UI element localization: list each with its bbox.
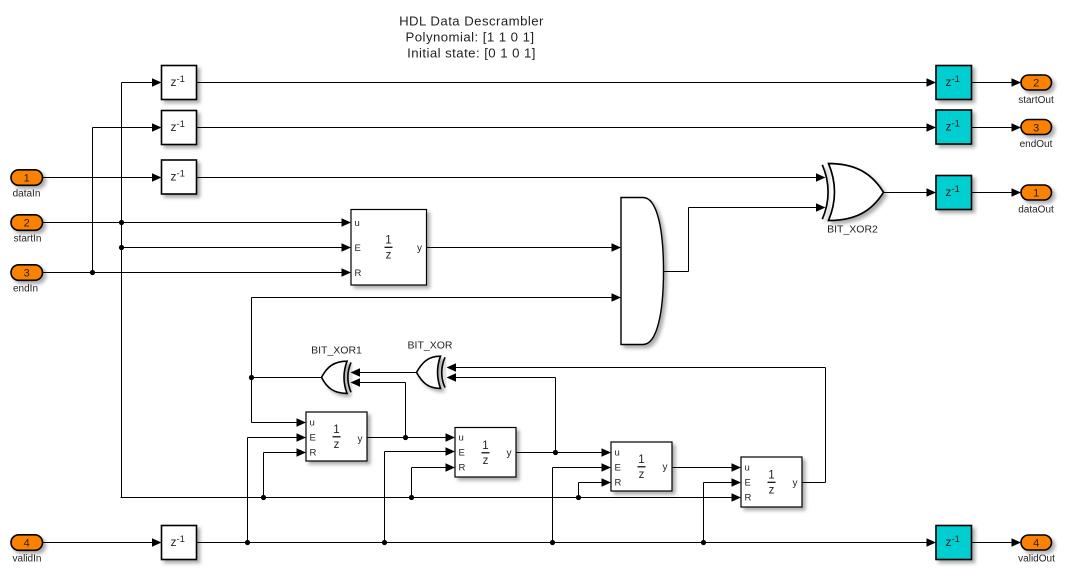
svg-text:1: 1 xyxy=(482,440,488,452)
svg-text:R: R xyxy=(745,493,752,504)
svg-text:Polynomial: [1 1 0 1]: Polynomial: [1 1 0 1] xyxy=(406,30,535,45)
svg-text:z: z xyxy=(769,485,775,497)
svg-text:R: R xyxy=(310,448,317,459)
svg-text:4: 4 xyxy=(1033,538,1039,550)
svg-text:u: u xyxy=(615,448,620,459)
svg-text:z: z xyxy=(386,250,392,262)
svg-text:R: R xyxy=(355,268,362,279)
svg-text:y: y xyxy=(507,448,512,459)
svg-text:BIT_XOR2: BIT_XOR2 xyxy=(827,224,878,236)
svg-text:endOut: endOut xyxy=(1020,139,1053,150)
svg-text:Initial state: [0 1 0 1]: Initial state: [0 1 0 1] xyxy=(407,46,536,61)
svg-text:HDL Data Descrambler: HDL Data Descrambler xyxy=(399,14,544,29)
svg-text:1: 1 xyxy=(768,470,774,482)
svg-text:3: 3 xyxy=(24,268,30,280)
svg-text:validIn: validIn xyxy=(13,554,42,565)
svg-text:z: z xyxy=(334,439,340,451)
svg-text:startOut: startOut xyxy=(1018,95,1054,106)
svg-text:1: 1 xyxy=(385,235,391,247)
svg-text:E: E xyxy=(745,478,751,489)
svg-text:1: 1 xyxy=(1033,188,1039,200)
svg-text:E: E xyxy=(459,448,465,459)
svg-text:dataIn: dataIn xyxy=(13,189,41,200)
svg-text:3: 3 xyxy=(1033,123,1039,135)
svg-text:2: 2 xyxy=(1033,78,1039,90)
svg-text:R: R xyxy=(459,463,466,474)
svg-text:2: 2 xyxy=(24,218,30,230)
svg-text:u: u xyxy=(355,218,360,229)
svg-text:z: z xyxy=(483,455,489,467)
svg-text:1: 1 xyxy=(638,454,644,466)
svg-text:E: E xyxy=(615,463,621,474)
svg-text:dataOut: dataOut xyxy=(1018,205,1054,216)
svg-text:u: u xyxy=(310,418,315,429)
svg-text:BIT_XOR1: BIT_XOR1 xyxy=(311,345,362,357)
svg-text:E: E xyxy=(355,243,361,254)
svg-text:4: 4 xyxy=(24,538,30,550)
svg-text:y: y xyxy=(358,434,363,445)
svg-text:endIn: endIn xyxy=(13,284,38,295)
svg-text:1: 1 xyxy=(24,173,30,185)
svg-text:y: y xyxy=(417,243,422,254)
svg-text:z: z xyxy=(639,469,645,481)
svg-text:validOut: validOut xyxy=(1018,554,1055,565)
svg-text:R: R xyxy=(615,478,622,489)
svg-text:u: u xyxy=(745,463,750,474)
svg-text:1: 1 xyxy=(333,424,339,436)
svg-text:u: u xyxy=(459,433,464,444)
svg-text:BIT_XOR: BIT_XOR xyxy=(408,340,453,352)
svg-text:y: y xyxy=(793,478,798,489)
svg-text:startIn: startIn xyxy=(14,234,42,245)
svg-text:E: E xyxy=(310,433,316,444)
svg-text:y: y xyxy=(663,462,668,473)
